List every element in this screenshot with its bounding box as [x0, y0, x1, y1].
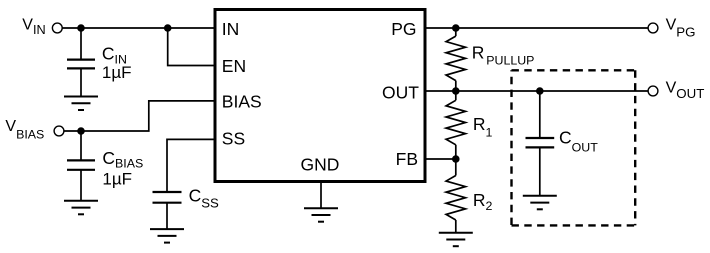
ground (GND pin) — [304, 208, 338, 222]
svg-text:IN: IN — [222, 19, 240, 39]
svg-text:CSS: CSS — [189, 185, 219, 210]
svg-text:FB: FB — [396, 149, 418, 169]
capacitor C_SS — [153, 192, 182, 229]
wire V_IN to IN pin — [63, 27, 216, 29]
terminal V_BIAS — [54, 126, 64, 136]
node junction on V_IN at EN tap — [164, 24, 172, 32]
ground (C_SS) — [150, 229, 184, 243]
terminal V_PG — [648, 23, 658, 33]
capacitor C_BIAS — [67, 131, 95, 201]
capacitor C_OUT — [526, 91, 555, 196]
svg-text:R2: R2 — [473, 190, 493, 213]
wire OUT to V_OUT — [425, 90, 648, 92]
node junction PG at R_PULLUP — [452, 24, 460, 32]
svg-text:VPG: VPG — [666, 16, 696, 39]
resistor R2 — [446, 159, 465, 233]
dashed optional C_OUT box — [512, 70, 636, 225]
svg-text:SS: SS — [222, 129, 245, 149]
svg-text:OUT: OUT — [382, 82, 419, 102]
resistor R1 — [446, 91, 465, 159]
wire EN tap — [168, 28, 215, 66]
node junction OUT at C_OUT — [536, 87, 544, 95]
svg-text:VOUT: VOUT — [666, 79, 705, 100]
svg-text:COUT: COUT — [559, 128, 598, 155]
terminal V_IN — [52, 23, 62, 33]
svg-text:PG: PG — [391, 19, 416, 39]
ground (C_BIAS) — [64, 201, 98, 215]
terminal V_OUT — [648, 86, 658, 96]
capacitor C_IN — [67, 28, 95, 97]
node junction on V_BIAS at C_BIAS — [77, 127, 85, 135]
svg-text:VIN: VIN — [22, 17, 45, 38]
ground (C_IN) — [64, 97, 98, 111]
resistor R_PULLUP — [446, 28, 465, 91]
node junction FB — [452, 155, 460, 163]
IC U1 body — [215, 10, 425, 182]
svg-text:VBIAS: VBIAS — [5, 118, 44, 141]
svg-text:EN: EN — [222, 56, 246, 76]
svg-text:R1: R1 — [473, 114, 493, 140]
svg-text:GND: GND — [301, 155, 340, 175]
svg-text:1µF: 1µF — [102, 170, 132, 189]
svg-text:1µF: 1µF — [102, 63, 132, 82]
wire GND pin to ground — [320, 182, 322, 209]
wire PG to V_PG — [425, 27, 648, 29]
wire V_BIAS to BIAS pin — [64, 101, 215, 131]
svg-text:RPULLUP: RPULLUP — [472, 43, 535, 68]
svg-text:CBIAS: CBIAS — [102, 148, 143, 171]
node junction on V_IN at C_IN — [77, 24, 85, 32]
ground (R2) — [439, 233, 473, 247]
svg-text:BIAS: BIAS — [222, 92, 262, 112]
node junction OUT at resistors — [452, 87, 460, 95]
wire FB pin — [425, 158, 456, 160]
wire SS pin to C_SS — [167, 139, 215, 192]
ground (C_OUT) — [523, 196, 557, 210]
